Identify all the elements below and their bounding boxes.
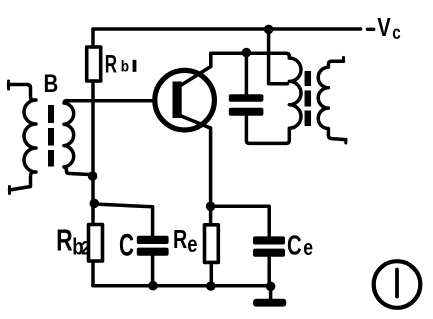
svg-text:R: R bbox=[56, 222, 73, 257]
transformer T2 core bbox=[305, 71, 312, 126]
capacitor tank top lead bbox=[245, 53, 249, 95]
transistor Q1 base bar bbox=[173, 82, 182, 119]
resistor Rb2 bbox=[89, 225, 103, 262]
transformer B primary top stub bbox=[9, 83, 28, 87]
ground bbox=[253, 299, 286, 307]
capacitor C bottom lead bbox=[151, 256, 155, 286]
capacitor Ce plates bbox=[253, 236, 285, 256]
transistor Q1 collector line bbox=[181, 53, 211, 85]
wire emitter vertical bbox=[209, 128, 213, 225]
resistor Re bbox=[205, 225, 219, 263]
transistor Q1 emitter line bbox=[178, 115, 210, 128]
capacitor tank plates bbox=[229, 94, 264, 116]
transformer B secondary coil bbox=[64, 101, 93, 177]
node Rb2 top junction bbox=[90, 199, 100, 209]
label B bbox=[44, 69, 59, 97]
capacitor Ce bottom lead bbox=[267, 257, 271, 286]
transformer B primary top terminal tick bbox=[7, 81, 10, 89]
svg-text:C: C bbox=[287, 231, 302, 262]
svg-text:b: b bbox=[121, 59, 129, 76]
svg-text:B: B bbox=[44, 69, 59, 97]
transformer T2 secondary coil bbox=[318, 61, 346, 139]
svg-text:2: 2 bbox=[81, 237, 90, 259]
label Rb2 bbox=[56, 222, 90, 260]
transformer B primary bottom terminal tick bbox=[8, 187, 11, 194]
ground lead bbox=[269, 286, 273, 299]
svg-text:C: C bbox=[119, 227, 134, 262]
svg-text:e: e bbox=[303, 236, 313, 260]
node supply rail tap junction bbox=[264, 25, 274, 35]
svg-text:c: c bbox=[392, 22, 401, 44]
node B-coil / bias divider junction bbox=[88, 171, 98, 181]
transformer T2 secondary top terminal tick bbox=[342, 57, 345, 61]
wire top supply rail bbox=[93, 27, 361, 31]
node tank top junction bbox=[242, 48, 252, 58]
wire emitter node to capacitor Ce bbox=[211, 206, 270, 236]
wire bias node to capacitor C bbox=[94, 204, 152, 236]
transformer T2 primary coil bbox=[286, 58, 301, 143]
svg-text:R: R bbox=[173, 224, 188, 253]
capacitor C plates bbox=[137, 236, 169, 256]
figure number circle bbox=[374, 261, 421, 308]
wire Rb1 top lead bbox=[91, 29, 95, 47]
label C bbox=[119, 227, 134, 262]
node emitter branch junction bbox=[206, 202, 216, 212]
figure number I bbox=[395, 270, 399, 297]
wire Rb2 bottom lead bbox=[91, 261, 95, 286]
wire Re bottom lead bbox=[210, 262, 214, 286]
svg-text:e: e bbox=[187, 232, 197, 257]
svg-text:V: V bbox=[377, 12, 391, 41]
svg-text:R: R bbox=[105, 50, 117, 78]
label Rb1 bbox=[105, 50, 137, 78]
node ground junction bbox=[266, 282, 276, 292]
label Ce bbox=[287, 231, 313, 262]
transformer T2 secondary bottom terminal tick bbox=[344, 140, 347, 143]
wire bottom ground bus bbox=[93, 284, 271, 288]
wire Vc tap bbox=[269, 29, 288, 83]
label -Vc bbox=[366, 12, 401, 43]
transformer B primary coil bbox=[10, 85, 37, 191]
node C bottom junction bbox=[148, 281, 158, 291]
capacitor tank bottom lead bbox=[246, 117, 286, 144]
wire base lead bbox=[66, 99, 154, 103]
node Re bottom junction bbox=[206, 281, 216, 291]
resistor Rb1 bbox=[87, 47, 101, 81]
transformer B core bbox=[48, 105, 54, 167]
label Re bbox=[173, 224, 198, 257]
transistor Q1 body bbox=[155, 70, 215, 130]
wire collector to tank bbox=[211, 53, 289, 58]
wire Rb1 to Rb2 vertical bbox=[91, 81, 95, 225]
